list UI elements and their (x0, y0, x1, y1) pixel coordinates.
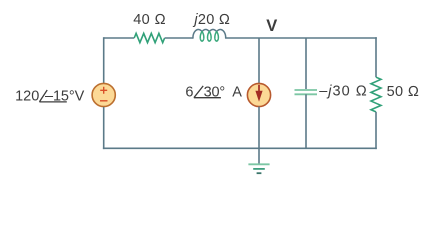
svg-text:6: 6 (185, 84, 193, 100)
wire top rail capacitor branch to right corner (306, 37, 377, 39)
current source I1 circle (247, 83, 270, 106)
label -j30 ohm (319, 84, 368, 100)
wire current source to bottom rail (258, 107, 260, 149)
wire capacitor branch top (305, 38, 307, 89)
wire voltage source to bottom rail (103, 107, 105, 149)
bottom rail right segment (259, 147, 377, 149)
svg-text:A: A (232, 84, 242, 100)
ground symbol (248, 164, 269, 173)
node V label (266, 17, 277, 35)
svg-text:50 Ω: 50 Ω (387, 84, 420, 100)
resistor R2 50 ohm (371, 77, 381, 112)
label j20 ohm (192, 12, 230, 28)
wire top rail node V to capacitor branch (259, 37, 306, 39)
label 50 ohm (387, 84, 420, 100)
resistor R1 40 ohm (134, 33, 164, 42)
wire capacitor to bottom rail (305, 94, 307, 148)
current source arrow (255, 85, 262, 102)
svg-text:120: 120 (15, 89, 39, 105)
label 120 angle -15 V (15, 89, 85, 105)
inductor L1 j20 ohm (193, 30, 226, 42)
bottom rail left segment (103, 147, 259, 149)
svg-text:j20 Ω: j20 Ω (192, 12, 230, 28)
label 6 angle 30 A (185, 84, 242, 100)
svg-text:40 Ω: 40 Ω (133, 12, 166, 28)
svg-text:V: V (75, 89, 85, 105)
voltage source minus sign (100, 100, 108, 102)
voltage source plus sign (100, 87, 107, 94)
capacitor C1 plates (295, 90, 318, 94)
wire right branch top (rail to 50 ohm) (375, 37, 377, 77)
svg-text:V: V (266, 17, 277, 35)
wire top rail from inductor to node V junction (226, 37, 259, 39)
wire ground stub (258, 148, 260, 164)
wire top rail left segment (104, 37, 135, 39)
svg-text:–j30 Ω: –j30 Ω (319, 84, 368, 100)
wire top-left vertical segment (source to top rail) (103, 37, 105, 83)
wire right branch bottom (50 ohm to rail) (375, 112, 377, 149)
wire between resistor and inductor (165, 37, 193, 39)
voltage source V1 circle (92, 83, 115, 106)
wire current source branch top (258, 38, 260, 83)
label 40 ohm (133, 12, 166, 28)
